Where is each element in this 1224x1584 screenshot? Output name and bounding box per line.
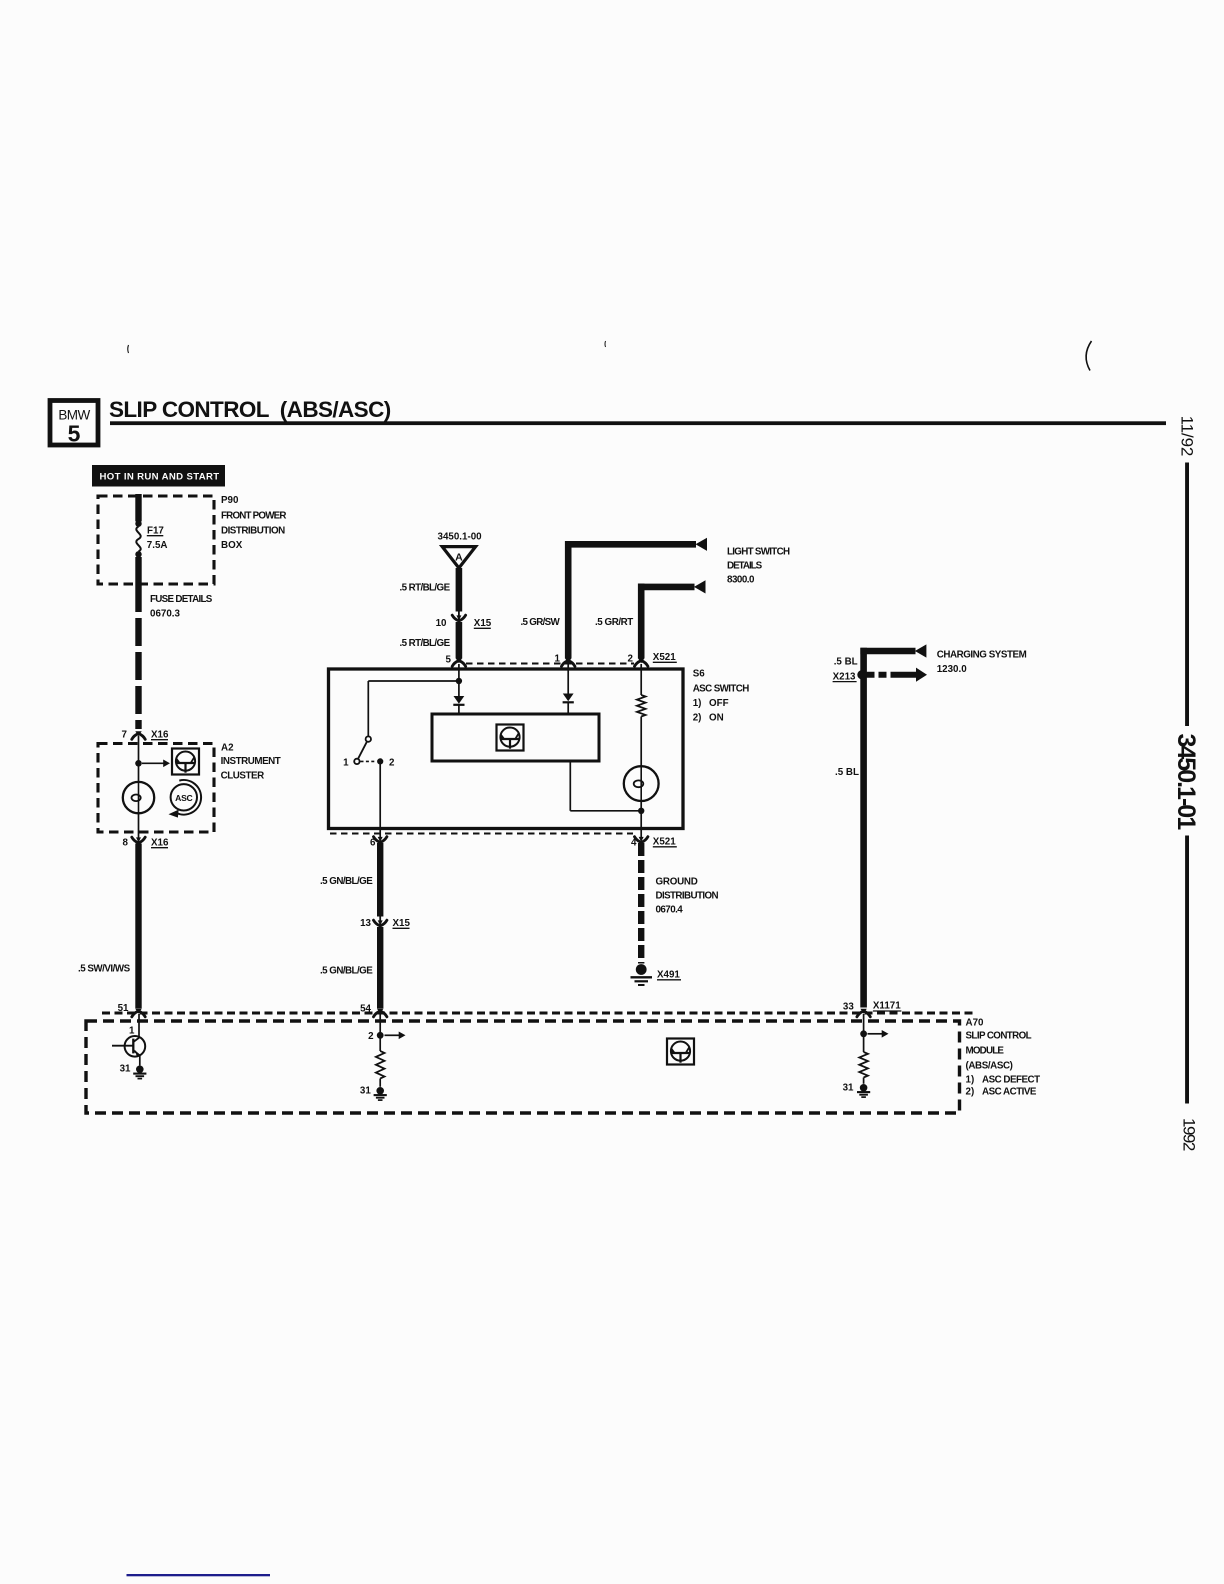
connector pin 5 into switch — [456, 658, 462, 663]
svg-text:GROUND: GROUND — [656, 877, 698, 888]
wire pin 33 into module — [863, 1014, 865, 1031]
indicator lamp (ABS warning) in cluster — [123, 782, 154, 813]
svg-text:7: 7 — [122, 730, 128, 741]
svg-text:11/92: 11/92 — [1177, 416, 1196, 456]
svg-text:A2: A2 — [221, 743, 234, 754]
svg-text:P90: P90 — [221, 495, 239, 506]
svg-text:SLIP CONTROL (ABS/ASC): SLIP CONTROL (ABS/ASC) — [109, 397, 391, 422]
svg-text:31: 31 — [120, 1064, 131, 1075]
svg-text:(ABS/ASC): (ABS/ASC) — [966, 1060, 1013, 1071]
svg-text:ASC DEFECT: ASC DEFECT — [982, 1074, 1040, 1085]
ABS icon in module — [667, 1039, 694, 1065]
wire from hot bus into fuse F17 — [135, 494, 141, 522]
connector X16 pin 7 (entry into instrument cluster) — [135, 731, 141, 736]
svg-text:DISTRIBUTION: DISTRIBUTION — [656, 891, 719, 902]
ground 31 left — [136, 1066, 144, 1074]
svg-text:CLUSTER: CLUSTER — [221, 771, 264, 782]
resistor in module right — [859, 1052, 868, 1078]
junction node pin 54 — [377, 1032, 384, 1039]
wire to resistor right — [863, 1034, 865, 1052]
wire from block bottom to junction J2 — [570, 761, 639, 811]
svg-text:S6: S6 — [693, 669, 706, 680]
svg-text:1): 1) — [693, 698, 702, 709]
svg-text:31: 31 — [843, 1082, 854, 1093]
svg-text:.5 BL: .5 BL — [835, 767, 859, 778]
junction node X213 — [857, 670, 866, 679]
label A2 INSTRUMENT CLUSTER — [221, 743, 281, 782]
svg-text:.5 RT/BL/GE: .5 RT/BL/GE — [400, 638, 451, 649]
wire pin1 to diode D2 — [567, 664, 569, 694]
connector pin 33 into module — [860, 1009, 866, 1014]
margin rule lower — [1185, 836, 1189, 1104]
label LIGHT SWITCH DETAILS 8300.0 — [727, 547, 790, 586]
junction node in cluster — [135, 760, 142, 767]
output transistor in module — [112, 1036, 145, 1057]
arrow to module logic right — [868, 1033, 883, 1035]
ground 31 middle — [376, 1087, 384, 1095]
svg-text:31: 31 — [360, 1085, 371, 1096]
svg-text:CHARGING SYSTEM: CHARGING SYSTEM — [937, 650, 1027, 661]
switch position contact 1 — [354, 759, 359, 764]
wire .5 GR/SW from light switch to pin 1 — [565, 541, 696, 659]
margin rule upper — [1185, 463, 1189, 727]
wire J2 to pin 4 — [640, 811, 642, 839]
ABS icon in switch block — [497, 725, 524, 751]
wire pin5 into box to junction — [458, 664, 460, 678]
label CHARGING SYSTEM 1230.0 — [937, 650, 1027, 676]
svg-text:10: 10 — [436, 618, 447, 629]
wire X15-13 to module pin 54 — [377, 927, 383, 1009]
switch position contact 2 — [377, 758, 383, 764]
svg-text:X15: X15 — [393, 918, 411, 929]
connector strip dashed line across module top — [102, 1012, 974, 1015]
diode on pin1 feed — [563, 694, 574, 702]
off-page arrow to light switch lower — [694, 580, 706, 593]
svg-text:BOX: BOX — [221, 540, 243, 551]
in-line connector X15 pin 10 — [452, 611, 465, 621]
resistor in module middle — [376, 1051, 385, 1079]
ASC telltale symbol with rotation arrow — [169, 780, 202, 818]
connector pin 4 out of switch — [639, 837, 644, 842]
wire resistor to ground middle — [379, 1079, 381, 1087]
svg-text:A: A — [455, 552, 463, 564]
svg-text:.5 GN/BL/GE: .5 GN/BL/GE — [320, 966, 373, 977]
wire .5 GR/RT from light switch to pin 2 — [638, 584, 695, 659]
svg-text:FRONT POWER: FRONT POWER — [221, 511, 286, 522]
connector pin 54 into module — [377, 1009, 383, 1014]
svg-text:8300.0: 8300.0 — [727, 575, 755, 586]
svg-text:MODULE: MODULE — [966, 1046, 1005, 1057]
illumination block in switch — [432, 714, 599, 761]
svg-text:X15: X15 — [474, 618, 492, 629]
svg-text:INSTRUMENT: INSTRUMENT — [221, 756, 281, 767]
wire .5 GN/BL/GE from pin 6 to X15 pin 13 — [377, 843, 383, 917]
dashed power wire from P90 down to connector 7 — [135, 584, 141, 729]
label S6 ASC SWITCH 1) OFF 2) ON — [693, 669, 750, 724]
svg-text:0670.3: 0670.3 — [150, 609, 181, 620]
svg-text:ASC SWITCH: ASC SWITCH — [693, 684, 750, 695]
svg-text:2: 2 — [389, 758, 395, 769]
dashed ground wire pin4 to X491 — [638, 843, 644, 964]
switch illumination lamp — [624, 766, 659, 801]
S6 ASC switch box — [329, 669, 684, 829]
wire .5 SW/VI/WS from cluster to slip control module pin 51 — [135, 844, 141, 1009]
label GROUND DISTRIBUTION 0670.4 — [656, 877, 719, 916]
svg-text:2): 2) — [693, 712, 702, 723]
wire resistor to switch lamp — [640, 717, 642, 767]
svg-text:3450.1-00: 3450.1-00 — [438, 532, 483, 543]
svg-text:LIGHT SWITCH: LIGHT SWITCH — [727, 547, 790, 558]
wire junction to lamp — [138, 763, 140, 782]
svg-text:ON: ON — [709, 712, 724, 723]
wire triangle to X15 pin 10 — [456, 568, 463, 612]
wire lamp to connector 8 — [138, 813, 140, 840]
wire diode2 to lamp block — [567, 703, 569, 714]
connector X16 pin 8 (exit from instrument cluster) — [136, 837, 141, 842]
wire connector7 to junction — [138, 736, 140, 762]
svg-text:7.5A: 7.5A — [147, 540, 168, 551]
svg-text:.5 SW/VI/WS: .5 SW/VI/WS — [78, 964, 131, 975]
svg-text:2: 2 — [368, 1031, 374, 1042]
svg-text:X16: X16 — [151, 730, 169, 741]
svg-text:F17: F17 — [147, 526, 164, 537]
svg-text:1: 1 — [343, 758, 349, 769]
junction node on pin5 wire — [456, 678, 462, 684]
off-page arrow to charging system — [915, 644, 927, 657]
svg-text:SLIP CONTROL: SLIP CONTROL — [966, 1030, 1032, 1041]
junction node J2 — [638, 808, 644, 814]
svg-text:.5 BL: .5 BL — [834, 657, 858, 668]
svg-text:X521: X521 — [653, 652, 676, 663]
connector pin 2 into switch — [638, 658, 644, 663]
resistor (lamp dropping) in switch — [637, 695, 646, 717]
svg-text:2): 2) — [966, 1087, 975, 1098]
P90 front power distribution box (dashed) — [98, 496, 214, 584]
hot-in-run-and-start bus bar — [92, 465, 225, 487]
connector strip dashed line at switch top — [466, 663, 634, 665]
svg-text:FUSE DETAILS: FUSE DETAILS — [150, 594, 213, 605]
svg-text:1: 1 — [129, 1026, 135, 1037]
switch S6 movable contact — [358, 736, 371, 758]
footer rule (blue) — [127, 1574, 271, 1576]
svg-text:DETAILS: DETAILS — [727, 561, 763, 572]
off-page arrow to light switch upper — [696, 538, 708, 551]
label A70 SLIP CONTROL MODULE (ABS/ASC) — [966, 1018, 1041, 1098]
svg-text:3450.1-01: 3450.1-01 — [1172, 734, 1200, 831]
note FUSE DETAILS 0670.3 — [150, 594, 213, 620]
svg-text:5: 5 — [68, 421, 81, 447]
wire junction to switch pivot branch — [368, 681, 459, 737]
connector pin 51 into module — [135, 1009, 141, 1014]
svg-text:DISTRIBUTION: DISTRIBUTION — [221, 526, 285, 537]
title underline rule — [110, 421, 1166, 425]
svg-text:X1171: X1171 — [873, 1001, 901, 1012]
wire pin 51 to transistor collector — [138, 1014, 140, 1037]
connector pin 6 out of switch — [378, 837, 383, 842]
wire diode to lamp block — [458, 705, 460, 714]
wire from fuse to box edge — [135, 557, 141, 584]
ground point X491 — [631, 964, 653, 985]
connector strip dashed line at switch bottom — [330, 833, 633, 835]
ABS telltale icon in cluster — [172, 749, 199, 775]
svg-text:ASC: ASC — [175, 793, 192, 803]
svg-text:.5 GR/SW: .5 GR/SW — [521, 617, 561, 628]
arrow from junction to ABS telltale icon — [142, 762, 164, 764]
svg-text:.5 RT/BL/GE: .5 RT/BL/GE — [400, 583, 451, 594]
wire X15 to ASC switch pin 5 — [456, 622, 463, 659]
BMW 5-series logo box — [50, 401, 98, 447]
svg-text:X491: X491 — [657, 970, 680, 981]
off-page connector triangle A — [442, 547, 475, 568]
switch throw dashed link — [361, 760, 377, 762]
stray scan mark middle — [604, 341, 607, 347]
dashed branch wire from X213 with arrow — [867, 668, 928, 682]
label P90 FRONT POWER DISTRIBUTION BOX — [221, 495, 286, 551]
svg-text:A70: A70 — [966, 1018, 985, 1029]
svg-text:5: 5 — [446, 655, 452, 666]
svg-text:X213: X213 — [833, 671, 856, 682]
svg-text:HOT IN RUN AND START: HOT IN RUN AND START — [100, 472, 220, 483]
wire .5 BL from charging system — [860, 648, 915, 1008]
wire emitter to ground 31 — [139, 1055, 141, 1065]
wire contact2 down to pin 6 — [379, 764, 381, 839]
page number 3450.1-01 (rotated) — [1172, 734, 1200, 831]
year 1992 (rotated) — [1179, 1118, 1198, 1151]
wire pin 54 into module — [379, 1014, 381, 1033]
junction node pin 33 — [860, 1030, 867, 1037]
svg-text:.5 GN/BL/GE: .5 GN/BL/GE — [320, 876, 373, 887]
wire resistor to ground right — [863, 1078, 865, 1084]
in-line connector X15 pin 13 — [374, 916, 387, 926]
A2 instrument cluster box (dashed) — [98, 744, 214, 833]
svg-text:ASC ACTIVE: ASC ACTIVE — [982, 1087, 1037, 1098]
svg-text:13: 13 — [360, 918, 371, 929]
svg-text:33: 33 — [843, 1002, 854, 1013]
wire to pull-up resistor middle — [379, 1035, 381, 1051]
svg-text:1): 1) — [966, 1074, 975, 1085]
svg-text:1230.0: 1230.0 — [937, 664, 968, 675]
fuse F17 7.5A — [135, 521, 141, 558]
wire junction to diode D1 — [458, 684, 460, 696]
svg-text:OFF: OFF — [709, 698, 729, 709]
svg-text:0670.4: 0670.4 — [656, 905, 684, 916]
svg-text:X521: X521 — [653, 837, 676, 848]
ground 31 right — [860, 1084, 868, 1092]
wire pin2 to resistor — [640, 664, 642, 695]
wire lamp to junction J2 — [640, 801, 642, 808]
svg-text:8: 8 — [123, 838, 129, 849]
arrow to module logic middle — [385, 1034, 400, 1036]
stray scan paren mark right — [1086, 341, 1091, 371]
connector pin 1 into switch — [565, 658, 571, 663]
diode on pin5 feed — [454, 696, 465, 704]
stray scan mark left — [127, 345, 130, 353]
A70 slip control module box (dashed) — [86, 1021, 960, 1113]
page date 11/92 (rotated) — [1177, 416, 1196, 456]
svg-text:.5 GR/RT: .5 GR/RT — [595, 617, 633, 628]
svg-text:X16: X16 — [151, 838, 169, 849]
svg-text:1992: 1992 — [1179, 1118, 1198, 1151]
